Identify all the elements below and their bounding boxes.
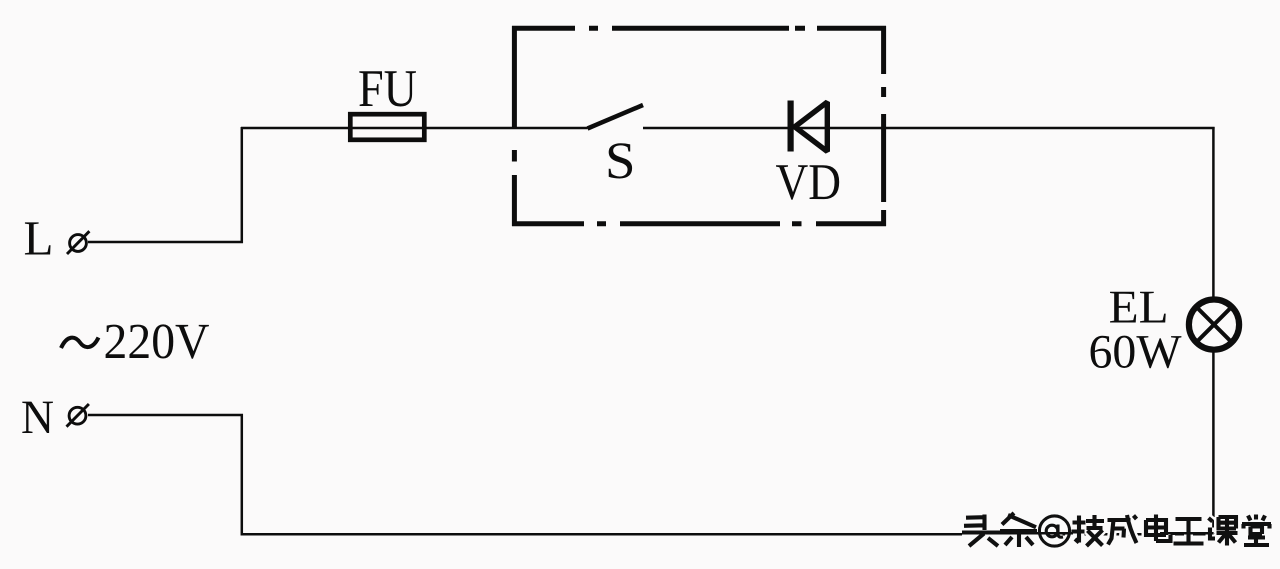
diode VD triangle: [795, 102, 828, 152]
wire N terminal to corner: [88, 414, 243, 417]
terminal L circle: [70, 235, 87, 252]
glyph @ ink: [1039, 516, 1069, 546]
lamp EL circle: [1189, 300, 1239, 350]
wire lamp drop top: [1212, 127, 1215, 300]
glyph @ halo: [1039, 516, 1069, 546]
terminal N slash: [67, 404, 89, 427]
diode VD cathode bar: [787, 101, 793, 152]
wire L terminal to corner: [88, 241, 243, 244]
svg-text:S: S: [605, 132, 636, 190]
dash-dot box top edge: [512, 26, 886, 31]
svg-text:VD: VD: [776, 154, 842, 211]
svg-text:60W: 60W: [1089, 326, 1183, 379]
wire N riser: [241, 414, 244, 536]
svg-text:L: L: [24, 211, 54, 266]
wire bottom main: [241, 533, 1215, 536]
wire switch to lamp corner: [643, 127, 1215, 130]
terminal N circle: [69, 407, 86, 424]
wire top main: [241, 127, 588, 130]
dash-dot box right edge: [881, 26, 886, 226]
wire L riser: [241, 127, 244, 243]
lamp EL cross: [1197, 307, 1232, 342]
fuse FU body: [350, 114, 424, 140]
dash-dot box left edge: [512, 26, 517, 226]
wire lamp drop bottom: [1212, 350, 1215, 534]
wire visible through @ ring and between glyphs: [995, 532, 1214, 535]
terminal L slash: [67, 231, 89, 254]
watermark black strokes: [962, 513, 1271, 547]
tilde of ~220V: [61, 338, 99, 349]
svg-text:N: N: [21, 391, 54, 444]
watermark white halo: [962, 513, 1271, 547]
svg-text:FU: FU: [358, 60, 417, 118]
svg-text:220V: 220V: [104, 313, 210, 369]
switch S blade: [588, 105, 644, 129]
dash-dot box bottom edge: [512, 221, 886, 226]
